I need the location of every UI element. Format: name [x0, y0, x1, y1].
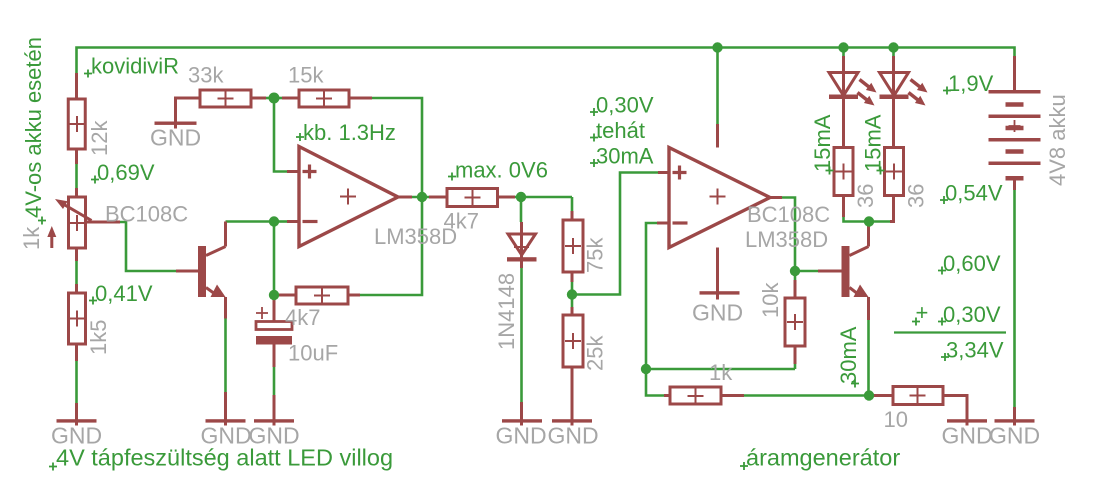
svg-text:GND: GND	[495, 423, 546, 449]
svg-text:0,30V: 0,30V	[943, 302, 1001, 327]
svg-text:GND: GND	[150, 125, 201, 151]
svg-text:4V tápfeszültség alatt LED vil: 4V tápfeszültség alatt LED villog	[56, 445, 393, 471]
svg-text:33k: 33k	[188, 63, 224, 88]
svg-text:30mA: 30mA	[596, 144, 654, 169]
svg-text:15mA: 15mA	[810, 114, 835, 172]
svg-text:4V8 akku: 4V8 akku	[1045, 94, 1070, 186]
svg-text:3,34V: 3,34V	[946, 338, 1004, 363]
svg-text:max. 0V6: max. 0V6	[455, 158, 548, 183]
svg-text:áramgenerátor: áramgenerátor	[746, 445, 900, 471]
svg-text:0,60V: 0,60V	[943, 251, 1001, 276]
svg-text:0,30V: 0,30V	[596, 93, 654, 118]
svg-text:10: 10	[884, 407, 908, 432]
svg-text:4k7: 4k7	[444, 209, 479, 234]
svg-text:+: +	[916, 300, 929, 325]
svg-text:1,9V: 1,9V	[948, 71, 994, 96]
svg-text:GND: GND	[547, 423, 598, 449]
svg-text:25k: 25k	[583, 335, 608, 371]
svg-text:GND: GND	[941, 423, 992, 449]
svg-text:10k: 10k	[758, 282, 783, 318]
svg-text:4k7: 4k7	[285, 305, 320, 330]
svg-text:BC108C: BC108C	[105, 202, 188, 227]
svg-text:0,54V: 0,54V	[945, 181, 1003, 206]
svg-text:tehát: tehát	[596, 118, 645, 143]
svg-text:BC108C: BC108C	[747, 202, 830, 227]
svg-text:15k: 15k	[288, 63, 324, 88]
svg-text:30mA: 30mA	[836, 326, 861, 384]
svg-text:75k: 75k	[583, 237, 608, 273]
svg-text:36: 36	[904, 184, 929, 208]
svg-text:0,41V: 0,41V	[95, 281, 153, 306]
svg-text:1N4148: 1N4148	[494, 273, 519, 350]
svg-text:0,69V: 0,69V	[97, 160, 155, 185]
svg-text:1k: 1k	[709, 360, 733, 385]
svg-text:kb. 1.3Hz: kb. 1.3Hz	[303, 120, 396, 145]
svg-text:kovidiviR: kovidiviR	[91, 54, 179, 79]
svg-text:4V-os akku esetén: 4V-os akku esetén	[21, 37, 46, 218]
svg-text:GND: GND	[692, 300, 743, 326]
svg-text:1k5: 1k5	[86, 320, 111, 355]
svg-text:LM358D: LM358D	[745, 227, 828, 252]
svg-text:1k: 1k	[19, 226, 44, 250]
svg-text:36: 36	[853, 184, 878, 208]
svg-text:12k: 12k	[87, 120, 112, 156]
svg-text:10uF: 10uF	[288, 341, 338, 366]
svg-text:15mA: 15mA	[861, 114, 886, 172]
svg-text:GND: GND	[989, 423, 1040, 449]
